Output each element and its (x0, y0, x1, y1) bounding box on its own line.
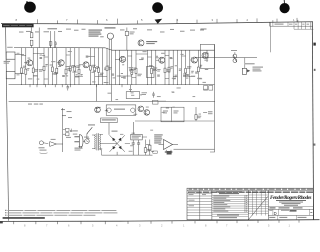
supply rail wire (top) (14, 48, 215, 51)
wire vertical from lower bus (62, 108, 64, 152)
output wire to speaker (195, 57, 257, 59)
punch hole left (24, 2, 36, 13)
wire stub row2 (95, 85, 97, 102)
resistor R401 (144, 140, 151, 156)
resistor R119 (128, 50, 133, 84)
notes line 1 (5, 210, 116, 211)
notes header bold (3, 217, 45, 219)
title block outline (187, 188, 313, 220)
jack label text (4, 61, 11, 64)
resistor R107 (56, 48, 61, 85)
buffer amp triangle (50, 139, 63, 147)
resistor R103 (38, 48, 43, 85)
drawing number row (268, 209, 313, 216)
middle table qty column line (244, 195, 246, 212)
voltage measurement note text (89, 30, 103, 37)
input jack J2 (6, 72, 24, 79)
volume pot box (147, 67, 155, 78)
resistor R106 (51, 48, 57, 85)
interlock box (101, 118, 118, 135)
middle table rows (212, 195, 248, 212)
scattered component value labels (28, 51, 209, 152)
transistor TR1 (27, 60, 33, 66)
resistor R116 (106, 48, 111, 85)
label near output box (201, 29, 207, 30)
logo address lines (276, 200, 306, 206)
transistor TR5 tremolo (138, 40, 144, 46)
revision table rows (248, 193, 268, 214)
bias network box (126, 85, 147, 99)
bottom zone ticks (14, 220, 299, 224)
junction stubs below ground bus (30, 84, 123, 87)
resistor R110 (74, 48, 81, 85)
transistor TR2 (58, 60, 64, 66)
resistor R118 (119, 50, 123, 84)
resistor R121 (135, 50, 142, 84)
resistor R128 (177, 50, 181, 84)
middle table row text (213, 196, 247, 212)
regulator box (131, 134, 147, 140)
resistor R102 (32, 48, 38, 85)
long vertical wire x39 (38, 28, 40, 48)
top border line (1, 22, 313, 25)
resistor R109 (69, 48, 75, 85)
bias resistor pair upper-left (30, 27, 33, 47)
reverb row lower wire (135, 120, 215, 122)
label TR5 (146, 41, 157, 44)
power supply ground bus (102, 154, 153, 156)
resistor R111 (78, 48, 83, 85)
bridge rectifier D1-D4 (105, 131, 130, 156)
knob labels under lower bus (28, 104, 43, 105)
left border line (6, 27, 9, 221)
power transistor pair (231, 50, 237, 62)
title block contract text strip (188, 192, 313, 193)
title row AC568 (268, 207, 313, 209)
resistor R115 (103, 48, 107, 85)
component labels upper strip (19, 28, 204, 32)
bottom border line (0, 220, 320, 222)
transistor TR10 (138, 106, 144, 112)
top zone numbers (16, 18, 296, 22)
resistor R112 (89, 48, 95, 85)
small box pair right of bus (204, 86, 213, 91)
capacitor C26 (125, 28, 134, 51)
capacitor C15 (152, 92, 155, 98)
stray labels left-mid (61, 109, 72, 118)
reverb unit box (106, 105, 136, 115)
power transformer T1 (92, 133, 105, 155)
punch hole middle (152, 2, 163, 13)
bottom-left corner mark (0, 221, 3, 223)
capacitor C3 (165, 150, 168, 153)
wire regulator to reverb (133, 122, 135, 134)
title block header text strip (189, 189, 314, 190)
middle table footer text (212, 214, 248, 218)
parts table cell text (189, 191, 207, 206)
interconnect jog wires upper band (22, 54, 196, 80)
footswitch jack circle (39, 141, 49, 154)
resistor R124 (156, 50, 161, 84)
resistor R120 (131, 50, 137, 84)
resistor R105 (48, 48, 53, 85)
capacitor C14 (67, 85, 70, 91)
transistor TR6 (159, 57, 165, 63)
speaker output jack (242, 58, 263, 75)
stub at bottom of vertical (210, 151, 215, 153)
resistor R130 (185, 50, 192, 84)
resistor R125 (164, 50, 171, 84)
resistor R129 (182, 50, 187, 84)
resistor R402 (149, 140, 154, 156)
transistor TR11 (144, 110, 150, 116)
footswitch lamp circle (100, 27, 115, 101)
parts table vertical lines (200, 190, 212, 219)
small cap top strip A (49, 42, 52, 48)
dark terminal mark (167, 151, 172, 155)
right section vertical wire (214, 44, 216, 152)
middle table header text (216, 191, 242, 194)
transistor TR3 (83, 62, 89, 68)
resistor R101 (25, 48, 30, 85)
title label box top-left (2, 24, 34, 28)
resistor R123 (151, 50, 158, 84)
supply note text block (154, 134, 163, 143)
resistor R108 (65, 48, 71, 85)
resistor R131 (190, 50, 194, 84)
resistor R117 (115, 50, 120, 84)
resistor R122 (148, 50, 153, 84)
resistor R303 (195, 107, 201, 121)
right border line (312, 22, 313, 220)
transistor TR9 (95, 107, 101, 113)
reverb recovery labels (208, 111, 213, 114)
reverb pan two-cell box (161, 107, 184, 122)
notes line 2 (5, 212, 117, 213)
fold triangle marker on top border (155, 19, 163, 24)
resistor R127 (173, 50, 177, 84)
filter capacitor C2 (137, 140, 140, 155)
aux component boxes (63, 128, 78, 138)
title block header underline (187, 189, 313, 191)
small component box above reverb pan (153, 100, 167, 104)
resistor R114 (98, 48, 104, 85)
svg-text:D: D (274, 211, 277, 216)
resistor in output box (206, 50, 208, 62)
parts table rows (187, 193, 212, 215)
output stage enclosure box (200, 44, 214, 68)
resistor R104 (43, 48, 48, 85)
small terminal box (153, 151, 158, 153)
fuse F1 (83, 137, 89, 144)
input jack J1 (6, 47, 24, 59)
lower bus wire (9, 100, 215, 102)
top-right revision header table (270, 20, 314, 29)
revision table diagonal (249, 196, 268, 219)
transistor TR8 (202, 52, 208, 58)
logo block divider (267, 190, 269, 219)
resistor R126 (168, 50, 173, 84)
small cap top strip B (55, 41, 57, 48)
supply output wire (174, 148, 215, 150)
scale row (268, 215, 313, 219)
AC plug (74, 135, 83, 151)
extra small caps upper band (40, 56, 198, 78)
resistor R100 (21, 48, 26, 85)
fold vertical line from title strip (270, 22, 272, 52)
bottom zone numbers (24, 224, 291, 228)
resistor R113 (94, 48, 99, 85)
wire jack ground link (14, 59, 16, 71)
right border zone marks (313, 43, 315, 146)
punch hole right (280, 0, 290, 13)
resistor R132 (197, 50, 202, 84)
notes line 3 (5, 215, 95, 216)
capacitor C4 (170, 150, 173, 153)
regulator pass element triangle (159, 140, 179, 150)
supply feed wires +15V (48, 28, 58, 48)
junction dots on buses (21, 83, 199, 86)
transistor TR4 (120, 56, 126, 62)
transistor TR7 (191, 57, 197, 63)
power switch SW1 (87, 124, 95, 138)
revision table verticals (248, 190, 265, 219)
filter capacitor C1 (132, 140, 135, 155)
ground bus wire (mid) (9, 84, 215, 86)
top zone ticks (38, 18, 298, 24)
